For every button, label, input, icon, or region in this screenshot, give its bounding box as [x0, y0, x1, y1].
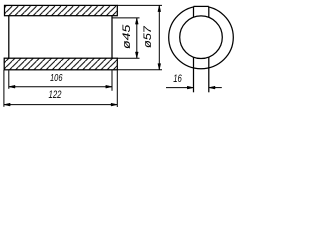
extension line 122 right — [116, 70, 118, 107]
dimension 16 — [166, 86, 222, 89]
bottom wall section (hatched) — [4, 58, 117, 70]
svg-text:ø45: ø45 — [121, 24, 133, 49]
svg-text:106: 106 — [50, 72, 63, 84]
dimension d45 — [135, 18, 138, 58]
extension line d57 top — [117, 4, 162, 6]
dimension d57 — [158, 5, 161, 69]
svg-text:ø57: ø57 — [142, 25, 154, 48]
outer circle (with slot gap at top) — [169, 0, 234, 69]
extension line d45 top — [112, 17, 140, 19]
label ø57 — [142, 25, 154, 48]
extension line d45 bottom — [117, 57, 139, 59]
extension line 106 right — [111, 70, 113, 90]
label ø45 — [121, 24, 133, 49]
slot edge top-left — [193, 6, 195, 17]
svg-text:16: 16 — [173, 73, 182, 85]
extension line 106 left — [8, 71, 10, 89]
extension line 122 left — [3, 70, 5, 107]
bore edge left — [8, 16, 10, 59]
inner circle — [180, 16, 223, 59]
slot cap top — [194, 5, 209, 7]
bore edge right — [111, 16, 113, 59]
label 106 — [50, 72, 63, 84]
slot edge top-right — [208, 6, 210, 17]
dimension 122 — [4, 103, 117, 106]
extension line d57 bottom — [117, 69, 162, 71]
dimension 106 — [9, 85, 112, 88]
slot edge bottom-left / extension — [193, 57, 195, 92]
label 122 — [49, 89, 62, 101]
slot edge bottom-right / extension — [208, 57, 210, 92]
svg-text:122: 122 — [49, 89, 62, 101]
label 16 — [173, 73, 182, 85]
top wall section (hatched) — [5, 5, 118, 15]
